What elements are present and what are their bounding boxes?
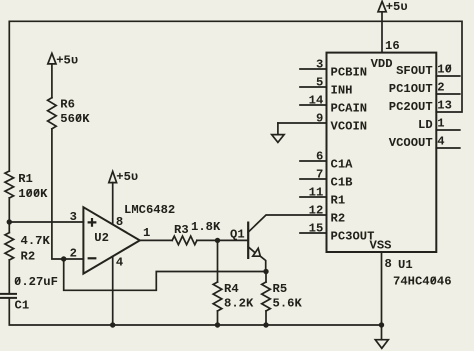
svg-text:2: 2	[70, 247, 77, 261]
svg-text:C1A: C1A	[331, 158, 354, 172]
svg-text:9: 9	[316, 112, 323, 126]
svg-text:11: 11	[309, 186, 324, 200]
svg-text:C1: C1	[15, 299, 30, 313]
svg-text:12: 12	[309, 204, 324, 218]
svg-text:4: 4	[437, 135, 444, 149]
svg-text:VDD: VDD	[371, 57, 393, 71]
svg-text:C1B: C1B	[331, 176, 354, 190]
svg-text:R1: R1	[331, 194, 346, 208]
svg-text:LMC6482: LMC6482	[124, 203, 175, 217]
svg-text:R2: R2	[21, 250, 36, 264]
svg-text:8: 8	[116, 215, 123, 229]
svg-text:15: 15	[309, 222, 324, 236]
svg-text:INH: INH	[331, 84, 353, 98]
svg-text:PCAIN: PCAIN	[331, 102, 368, 116]
svg-text:VCOIN: VCOIN	[331, 120, 368, 134]
svg-text:3: 3	[316, 58, 323, 72]
svg-text:PCBIN: PCBIN	[331, 66, 368, 80]
svg-text:8: 8	[385, 257, 392, 271]
svg-text:3: 3	[70, 210, 77, 224]
svg-text:1: 1	[143, 226, 150, 240]
svg-text:R1: R1	[18, 172, 33, 186]
svg-text:R3: R3	[174, 223, 189, 237]
svg-text:5.6K: 5.6K	[273, 297, 303, 311]
svg-text:SFOUT: SFOUT	[396, 64, 433, 78]
svg-text:+5υ: +5υ	[116, 170, 138, 184]
svg-text:0.27uF: 0.27uF	[14, 275, 58, 289]
svg-text:R5: R5	[273, 282, 288, 296]
svg-text:+5υ: +5υ	[56, 54, 78, 68]
svg-text:U1: U1	[398, 258, 413, 272]
svg-text:R6: R6	[60, 98, 75, 112]
svg-text:+5υ: +5υ	[386, 0, 408, 14]
svg-text:4: 4	[116, 256, 123, 270]
svg-text:4.7K: 4.7K	[21, 234, 51, 248]
svg-text:1: 1	[437, 117, 444, 131]
svg-text:5: 5	[316, 76, 323, 90]
svg-text:LD: LD	[418, 118, 433, 132]
svg-text:100K: 100K	[18, 187, 48, 201]
svg-text:R2: R2	[331, 212, 346, 226]
svg-text:PC1OUT: PC1OUT	[389, 82, 433, 96]
svg-text:74HC4046: 74HC4046	[393, 275, 452, 289]
svg-text:PC2OUT: PC2OUT	[389, 100, 433, 114]
svg-text:6: 6	[316, 150, 323, 164]
svg-text:1.8K: 1.8K	[191, 220, 221, 234]
svg-text:8.2K: 8.2K	[224, 297, 254, 311]
svg-text:13: 13	[437, 99, 452, 113]
svg-text:Q1: Q1	[230, 228, 245, 242]
svg-text:10: 10	[437, 63, 452, 77]
svg-text:R4: R4	[224, 282, 239, 296]
svg-text:14: 14	[309, 94, 324, 108]
svg-text:PC3OUT: PC3OUT	[331, 230, 375, 244]
svg-text:7: 7	[316, 168, 323, 182]
svg-text:VCOOUT: VCOOUT	[389, 136, 433, 150]
svg-text:560K: 560K	[60, 112, 90, 126]
svg-text:2: 2	[437, 81, 444, 95]
svg-text:16: 16	[385, 39, 400, 53]
svg-text:U2: U2	[94, 231, 109, 245]
